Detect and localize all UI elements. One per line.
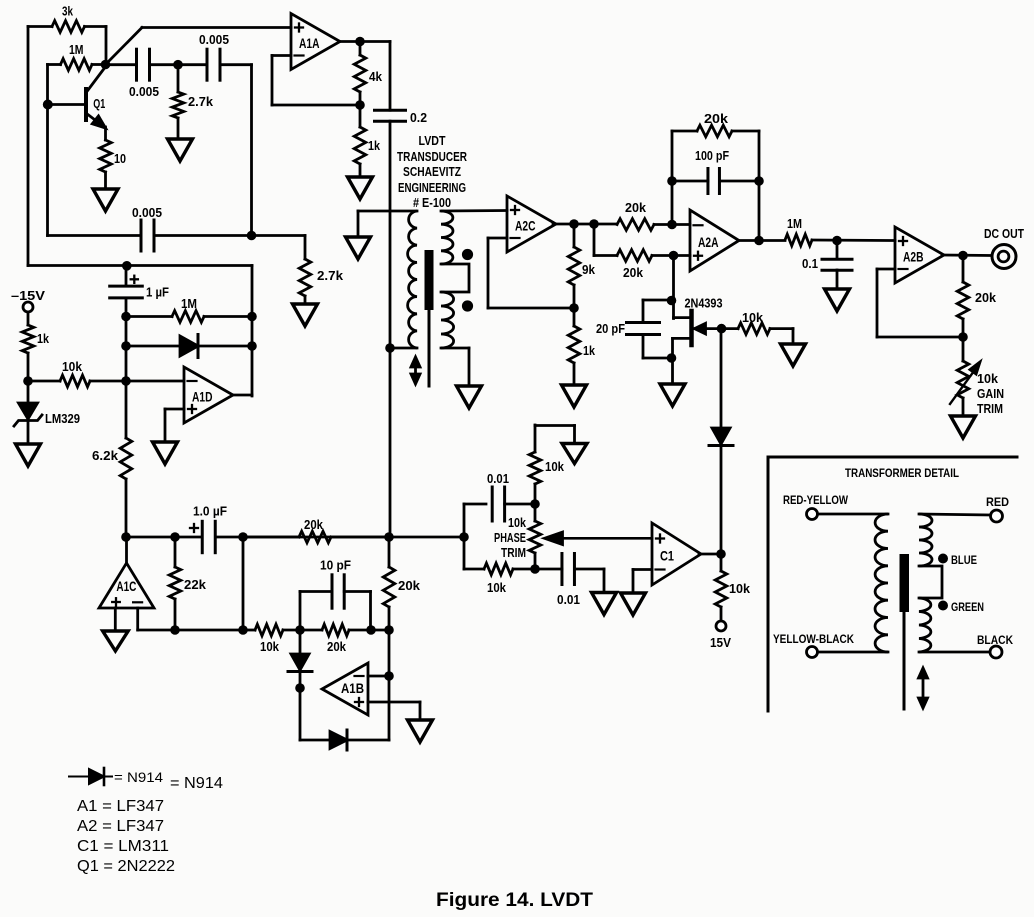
node A1B - xyxy=(384,671,394,681)
svg-text:C1 = LM311: C1 = LM311 xyxy=(77,838,169,855)
capacitor 0.005 first xyxy=(105,63,137,66)
svg-text:Q1: Q1 xyxy=(93,96,105,111)
node diode left xyxy=(121,341,131,351)
wire primary top to ground xyxy=(358,210,417,213)
svg-text:9k: 9k xyxy=(582,262,596,277)
resistor 20k phase xyxy=(243,536,299,539)
wire A2C - feedback xyxy=(488,237,507,240)
wire feedback right down xyxy=(758,131,761,241)
op-amp A1D xyxy=(184,367,233,423)
ground A1D + xyxy=(153,442,178,464)
LVDT secondary top coil xyxy=(441,211,453,264)
node gain trim xyxy=(958,332,968,342)
capacitor 1 uF xyxy=(125,266,128,287)
terminal black xyxy=(990,646,1002,658)
resistor 20k feedback xyxy=(672,130,697,133)
node LM329 xyxy=(23,376,33,386)
svg-text:10k: 10k xyxy=(260,639,280,654)
svg-text:6.2k: 6.2k xyxy=(92,448,119,463)
svg-text:A2A: A2A xyxy=(698,235,719,250)
zener LM329 xyxy=(27,381,30,403)
svg-text:10k: 10k xyxy=(742,310,764,325)
resistor 20k vertical xyxy=(388,537,391,567)
svg-text:0.01: 0.01 xyxy=(557,592,580,607)
wire to 2.7k second xyxy=(252,234,306,237)
svg-text:0.005: 0.005 xyxy=(129,84,159,99)
polarity dot top secondary xyxy=(462,249,473,260)
op-amp A1A xyxy=(291,14,340,70)
capacitor 20 pF xyxy=(643,299,672,302)
svg-text:LM329: LM329 xyxy=(45,411,80,426)
svg-text:1M: 1M xyxy=(787,216,802,231)
terminal red xyxy=(991,510,1003,522)
svg-text:RED-YELLOW: RED-YELLOW xyxy=(783,493,849,507)
detail core xyxy=(900,554,910,612)
svg-text:TRIM: TRIM xyxy=(977,401,1003,416)
ground C1 - xyxy=(621,593,646,615)
svg-text:3k: 3k xyxy=(62,4,74,19)
detail core arrow xyxy=(922,672,925,704)
wire A1D output xyxy=(233,394,252,397)
svg-text:20k: 20k xyxy=(975,290,997,305)
node 1M right xyxy=(247,312,257,322)
terminal yellow-black xyxy=(807,647,818,658)
node phase trim left xyxy=(459,532,469,542)
capacitor 100 pF xyxy=(672,180,708,183)
op-amp A2C xyxy=(507,196,556,252)
svg-text:TRANSDUCER: TRANSDUCER xyxy=(397,149,467,164)
node 22k top xyxy=(170,532,180,542)
wire feedback column lower xyxy=(388,630,391,676)
svg-text:DC OUT: DC OUT xyxy=(984,226,1024,241)
svg-text:PHASE: PHASE xyxy=(494,530,526,545)
resistor 1M integrator xyxy=(126,315,172,318)
svg-text:10 pF: 10 pF xyxy=(320,557,351,572)
potentiometer 10k gain trim xyxy=(962,337,965,361)
wire diagonal Q1 to A1A + xyxy=(106,28,143,65)
wire secondary top to A2C + xyxy=(441,209,507,212)
comparator C1 xyxy=(652,523,701,585)
resistor 1M to A2B xyxy=(785,234,812,246)
node A1C output xyxy=(121,532,131,542)
wire A2C output xyxy=(553,223,617,226)
resistor 1k divider xyxy=(573,308,576,326)
svg-text:10k: 10k xyxy=(487,580,507,595)
svg-text:A1 = LF347: A1 = LF347 xyxy=(77,798,164,815)
node 100pF right xyxy=(754,176,764,186)
ground primary top xyxy=(346,237,371,259)
LVDT primary coil xyxy=(408,211,417,348)
node 1uF top xyxy=(122,261,132,271)
svg-text:BLUE: BLUE xyxy=(951,553,977,567)
resistor 10 xyxy=(100,140,112,172)
node A1B out xyxy=(295,683,305,693)
svg-text:Q1 = 2N2222: Q1 = 2N2222 xyxy=(77,858,175,875)
wire feedback up xyxy=(671,131,674,225)
polarity dot green xyxy=(938,601,948,611)
svg-text:1k: 1k xyxy=(37,331,50,346)
svg-text:1M: 1M xyxy=(69,42,84,57)
detail secondary top coil xyxy=(919,514,932,566)
node feedback/20k xyxy=(384,532,394,542)
resistor 20k to A2A + xyxy=(594,254,617,257)
wire red-yellow xyxy=(818,513,889,516)
svg-text:1k: 1k xyxy=(583,343,596,358)
node rect input xyxy=(295,625,305,635)
diode rect top xyxy=(299,630,302,654)
svg-text:0.01: 0.01 xyxy=(487,471,509,486)
svg-text:22k: 22k xyxy=(184,577,207,592)
wire A2A output xyxy=(739,239,785,242)
svg-text:ENGINEERING: ENGINEERING xyxy=(398,180,466,195)
svg-text:BLACK: BLACK xyxy=(977,633,1013,647)
node 10pF right xyxy=(366,625,376,635)
resistor 1k reference xyxy=(27,312,30,325)
wire right side of oscillator down xyxy=(250,65,253,236)
capacitor 0.005 bottom xyxy=(48,234,142,237)
resistor 10k pullup xyxy=(534,484,537,504)
capacitor 0.01 bottom xyxy=(535,568,562,571)
node 20k left xyxy=(238,532,248,542)
wire A2B output xyxy=(942,254,991,257)
wire feedback down to phase detector xyxy=(389,348,392,537)
svg-text:20k: 20k xyxy=(623,265,644,280)
node A2C out xyxy=(569,219,579,229)
resistor 20k to A2A - xyxy=(617,219,654,231)
svg-text:0.2: 0.2 xyxy=(410,110,427,125)
wire emitter down xyxy=(104,127,107,140)
ground gain trim xyxy=(951,416,976,438)
ground LM329 xyxy=(16,444,41,466)
resistor 10k reference xyxy=(28,380,60,383)
svg-text:TRANSFORMER DETAIL: TRANSFORMER DETAIL xyxy=(845,466,959,480)
ground 1k divider xyxy=(562,385,587,407)
ground 1k xyxy=(348,177,373,199)
svg-text:2N4393: 2N4393 xyxy=(685,296,723,311)
node 22k bottom xyxy=(170,625,180,635)
svg-text:SCHAEVITZ: SCHAEVITZ xyxy=(403,164,461,179)
svg-text:2.7k: 2.7k xyxy=(317,268,344,283)
svg-text:= N914: = N914 xyxy=(114,769,163,785)
node A2A out xyxy=(754,236,764,246)
resistor 2.7k second xyxy=(299,259,311,296)
wire A1A - feedback xyxy=(272,54,291,57)
wire integrator vertical xyxy=(125,317,128,382)
LVDT secondary bottom coil xyxy=(441,292,454,348)
ground 2.7k second xyxy=(293,304,318,326)
node 4k/1k xyxy=(355,100,365,110)
ground A1B + xyxy=(408,720,433,742)
svg-text:4k: 4k xyxy=(369,69,383,84)
svg-text:10k: 10k xyxy=(545,459,565,474)
ground JFET source xyxy=(660,384,685,406)
resistor 10k rect xyxy=(243,629,255,632)
node C1 out xyxy=(716,549,726,559)
node collector Q1 xyxy=(101,60,111,70)
node A1A output xyxy=(355,37,365,47)
ground A1C + xyxy=(103,631,128,651)
wire A2A + down to JFET drain xyxy=(672,256,675,319)
resistor 20k rect xyxy=(300,629,322,632)
polarity dot bottom secondary xyxy=(462,300,473,311)
terminal -15V xyxy=(23,302,33,312)
svg-text:10k: 10k xyxy=(977,371,999,386)
node A2A + input xyxy=(669,251,679,261)
wire pullup to ground xyxy=(535,424,575,427)
svg-text:0.1: 0.1 xyxy=(802,256,818,271)
svg-text:20k: 20k xyxy=(327,639,347,654)
svg-text:C1: C1 xyxy=(660,548,674,563)
svg-text:YELLOW-BLACK: YELLOW-BLACK xyxy=(773,632,854,646)
main wire phase detector xyxy=(126,536,202,539)
svg-text:10k: 10k xyxy=(62,359,83,374)
polarity dot blue xyxy=(938,554,948,564)
resistor 6.2k xyxy=(125,381,128,438)
wire black xyxy=(919,651,990,654)
transformer detail box xyxy=(768,457,1017,711)
node lower wire xyxy=(238,625,248,635)
resistor 10k gate xyxy=(717,324,727,334)
svg-text:1M: 1M xyxy=(181,296,197,311)
resistor 3k xyxy=(28,25,52,28)
terminal DC OUT xyxy=(992,245,1016,269)
detail secondary jog xyxy=(919,566,942,598)
wire base node down to bottom 0.005 xyxy=(46,105,49,236)
svg-text:1k: 1k xyxy=(368,138,381,153)
svg-text:100 pF: 100 pF xyxy=(695,148,729,163)
wire branch down to + path xyxy=(593,224,596,256)
ground secondary xyxy=(457,386,482,408)
wire primary bottom xyxy=(390,347,417,350)
op-amp A2B xyxy=(895,227,944,283)
legend diode symbol xyxy=(69,776,89,778)
node primary bottom feedback xyxy=(385,343,395,353)
svg-text:A1A: A1A xyxy=(299,36,320,51)
ground 0.01 bottom xyxy=(592,593,617,615)
node 1M int top xyxy=(121,312,131,322)
wire secondary bottom to ground xyxy=(441,347,469,350)
secondary series jog xyxy=(441,264,469,292)
node 100pF left xyxy=(667,176,677,186)
transistor 2N4393 JFET xyxy=(689,311,694,345)
ground 2.7k first xyxy=(168,139,193,161)
terminal red-yellow xyxy=(807,509,818,520)
svg-text:0.005: 0.005 xyxy=(199,32,229,47)
wire A1A output xyxy=(340,40,390,43)
wire A1C + to ground xyxy=(114,608,117,631)
svg-text:10k: 10k xyxy=(729,581,751,596)
wire A1D - input xyxy=(126,380,184,383)
svg-text:15V: 15V xyxy=(710,635,731,650)
resistor 10k lower arm xyxy=(463,537,466,569)
wire C1 - to ground xyxy=(633,568,652,571)
wire left feedback from 3k down to integrator xyxy=(27,27,30,266)
svg-text:10k: 10k xyxy=(508,515,527,530)
wire A1B - input xyxy=(368,675,389,678)
svg-text:A2 = LF347: A2 = LF347 xyxy=(77,818,164,835)
wire connector vertical xyxy=(242,537,245,630)
svg-text:A2C: A2C xyxy=(515,218,536,233)
wire A1C - input xyxy=(136,608,139,630)
wire C1 output xyxy=(699,553,721,556)
node bottom 0.005 right xyxy=(247,231,257,241)
svg-text:A1D: A1D xyxy=(192,389,213,404)
capacitor 0.1 xyxy=(836,241,839,260)
resistor 4k xyxy=(359,42,362,56)
ground pullup xyxy=(562,444,587,464)
resistor 1k oscillator out xyxy=(359,105,362,127)
node 0.005/2.7k xyxy=(173,60,183,70)
resistor 22k xyxy=(174,537,177,567)
potentiometer 10k phase trim xyxy=(534,504,537,521)
svg-text:Figure 14. LVDT: Figure 14. LVDT xyxy=(436,890,593,911)
node 0.1 top xyxy=(832,236,842,246)
svg-text:–15V: –15V xyxy=(11,288,45,303)
capacitor 1.0 uF xyxy=(201,521,204,552)
resistor 9k xyxy=(573,224,576,247)
svg-text:2.7k: 2.7k xyxy=(188,94,214,109)
wire red xyxy=(919,514,990,515)
node A2B out xyxy=(958,251,968,261)
diode integrator xyxy=(126,345,180,348)
op-amp A1C xyxy=(99,563,154,608)
node pot bottom xyxy=(530,564,540,574)
capacitor 10 pF xyxy=(299,592,302,631)
wire top feedback to integrator xyxy=(28,264,252,267)
node 9k/1k xyxy=(569,303,579,313)
ground 0.1 xyxy=(825,289,850,311)
capacitor 0.2 xyxy=(389,42,392,111)
node A1D - input xyxy=(121,376,131,386)
transistor Q1 xyxy=(84,89,88,120)
diode gate drive xyxy=(720,329,723,428)
svg-text:TRIM: TRIM xyxy=(501,545,526,560)
op-amp A2A xyxy=(690,210,739,271)
svg-text:20k: 20k xyxy=(304,517,324,532)
svg-text:10: 10 xyxy=(114,151,126,166)
svg-text:LVDT: LVDT xyxy=(419,133,446,148)
svg-text:RED: RED xyxy=(986,495,1009,509)
resistor 20k output divider xyxy=(962,256,965,283)
svg-text:# E-100: # E-100 xyxy=(413,195,451,210)
resistor 2.7k first xyxy=(177,65,180,92)
wire A1D + to ground xyxy=(165,408,184,411)
capacitor 0.01 top xyxy=(463,504,466,537)
node pot top xyxy=(530,499,540,509)
ground Q1 emitter xyxy=(93,189,118,211)
svg-text:20k: 20k xyxy=(704,111,729,126)
terminal 15V xyxy=(716,621,726,631)
svg-text:1.0 µF: 1.0 µF xyxy=(193,504,227,519)
svg-text:GAIN: GAIN xyxy=(977,386,1004,401)
svg-text:= N914: = N914 xyxy=(170,775,223,792)
wire A2B - feedback xyxy=(877,268,895,271)
detail primary coil xyxy=(875,514,888,652)
diode rect bottom loop xyxy=(299,688,302,740)
svg-text:A1C: A1C xyxy=(116,579,136,594)
svg-text:A2B: A2B xyxy=(903,249,924,264)
ground gate resistor xyxy=(781,344,806,366)
wire A1B + input xyxy=(368,701,420,704)
svg-text:A1B: A1B xyxy=(341,681,364,696)
svg-text:0.005: 0.005 xyxy=(132,205,162,220)
wire 1M left to base xyxy=(46,65,49,105)
node branch xyxy=(589,219,599,229)
wire yellow-black xyxy=(818,651,889,654)
node diode right xyxy=(247,341,257,351)
svg-text:GREEN: GREEN xyxy=(951,600,984,614)
capacitor 0.005 second xyxy=(178,63,207,66)
node 20k vert bottom xyxy=(384,625,394,635)
core motion arrow xyxy=(414,361,417,380)
op-amp A1B left pointing xyxy=(322,663,368,715)
node A2A - input xyxy=(667,220,677,230)
svg-text:20k: 20k xyxy=(625,200,647,215)
svg-text:20 pF: 20 pF xyxy=(596,321,625,336)
svg-text:1 µF: 1 µF xyxy=(146,285,169,300)
LVDT core xyxy=(425,250,434,310)
wiper arrow to C1 + xyxy=(556,537,652,540)
resistor 1M oscillator xyxy=(48,63,61,66)
resistor 10k to 15V xyxy=(720,554,723,571)
detail secondary bottom coil xyxy=(919,598,931,652)
svg-text:20k: 20k xyxy=(398,578,421,593)
